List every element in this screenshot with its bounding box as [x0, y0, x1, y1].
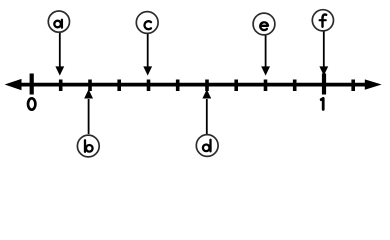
circle label c [136, 12, 158, 34]
circle label d [196, 135, 218, 157]
number line [14, 83, 372, 87]
label 0 [28, 98, 35, 109]
pointer arrow c [143, 34, 152, 76]
left arrowhead [5, 79, 22, 90]
pointer arrow f [319, 32, 328, 76]
pointer arrow a [55, 33, 64, 76]
tick 0.6 [205, 80, 209, 92]
circle label b [77, 135, 99, 157]
circle label f [312, 10, 333, 31]
tick 0.5 [176, 80, 180, 92]
tick 0.9 [293, 80, 297, 92]
tick 0.4 [147, 80, 151, 92]
pointer arrow b [84, 89, 93, 134]
tick 0.1 [59, 80, 63, 92]
circle label a [48, 11, 69, 32]
circle label e [253, 13, 275, 35]
tick 0.2 [88, 80, 92, 92]
label 1 [321, 98, 323, 109]
tick 1 (tall) [322, 74, 326, 95]
tick 0 (tall) [30, 74, 34, 95]
pointer arrow d [202, 89, 211, 134]
pointer arrow e [261, 35, 270, 76]
tick 0.8 [264, 80, 268, 92]
tick 0.3 [117, 80, 121, 92]
tick 1.1 [351, 80, 355, 92]
tick 0.7 [234, 80, 238, 92]
right arrowhead [365, 79, 382, 89]
